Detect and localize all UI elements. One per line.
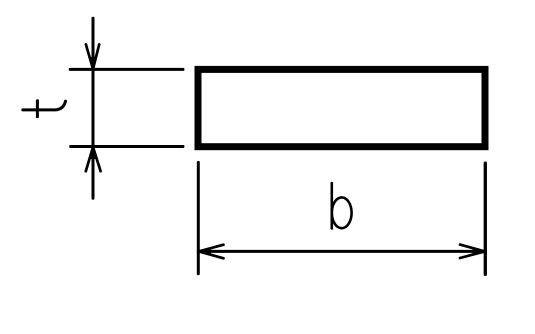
arrowhead t lower (pointing up) xyxy=(86,147,101,172)
extension line top (thickness t, upper) xyxy=(70,68,183,71)
arrowhead b right (pointing right) xyxy=(460,245,485,258)
arrowhead b left (pointing left) xyxy=(198,245,223,259)
dimension line b (horizontal) xyxy=(198,250,485,253)
extension line right (width b) xyxy=(484,163,487,274)
extension line left (width b) xyxy=(197,162,200,273)
arrowhead t upper (pointing down) xyxy=(86,44,99,69)
label b xyxy=(332,183,352,228)
flat bar rectangle outline xyxy=(198,69,485,146)
dimension line t (vertical) xyxy=(92,18,95,198)
label t (rotated 90 deg CCW) xyxy=(23,101,66,117)
extension line bottom (thickness t, lower) xyxy=(71,145,183,148)
